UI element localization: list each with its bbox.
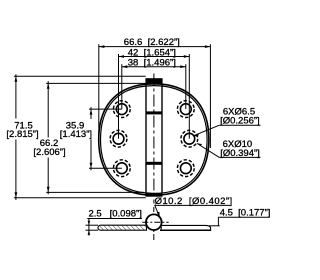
leader to hole inner bbox=[194, 125, 219, 135]
side view barrel circle bbox=[146, 214, 162, 230]
dim 2.5 underline bbox=[87, 218, 142, 220]
hole bottom-left bbox=[113, 160, 130, 177]
dim 66.6 line bbox=[99, 46, 210, 48]
hole top-left bbox=[113, 101, 130, 118]
dia 10.2 underline bbox=[154, 204, 230, 206]
barrel left line bbox=[145, 84, 147, 194]
svg-text:38 [1.496”]: 38 [1.496”] bbox=[128, 58, 176, 69]
dim 71.5 arrows bbox=[15, 76, 18, 198]
dim 66.2 arrows bbox=[47, 83, 50, 192]
dia 10.2 leader bbox=[155, 205, 160, 216]
dim 4.5 drop line bbox=[217, 217, 219, 226]
leaf inner edge circle bbox=[101, 86, 208, 194]
hole mid-left bbox=[110, 130, 127, 147]
barrel bottom cap bbox=[145, 193, 162, 196]
svg-text:[2.606”]: [2.606”] bbox=[33, 147, 65, 158]
svg-text:66.6 [2.622”]: 66.6 [2.622”] bbox=[124, 37, 180, 48]
barrel band lower bbox=[146, 162, 163, 165]
dim 35.9 extension lines bbox=[89, 109, 122, 168]
dim 4.5 extension bbox=[209, 225, 220, 227]
dim 4.5 underline bbox=[218, 216, 269, 218]
dim 66.6 extension lines bbox=[99, 44, 211, 148]
dim 66.2 line bbox=[47, 81, 49, 194]
dim 42 extension lines bbox=[119, 54, 190, 139]
dim 38 line bbox=[122, 66, 186, 68]
dim 66.6 arrows bbox=[99, 45, 210, 48]
side view left leaf bbox=[98, 225, 147, 230]
right leaf bottom edge heavy bbox=[160, 229, 210, 231]
label 6X dia 10 underline bbox=[219, 156, 260, 158]
dim 2.5 arrows bbox=[88, 221, 91, 235]
svg-text:4.5 [0.177”]: 4.5 [0.177”] bbox=[220, 207, 271, 218]
dim 2.5 extension lines bbox=[86, 225, 99, 230]
hole bottom-right bbox=[177, 160, 194, 177]
svg-text:2.5 [0.098”]: 2.5 [0.098”] bbox=[89, 209, 142, 220]
dim 35.9 line bbox=[90, 107, 92, 170]
dim 38 arrows bbox=[122, 65, 186, 68]
side view horizontal centerline bbox=[142, 221, 168, 223]
vertical centerline bbox=[153, 74, 155, 204]
hole top-right bbox=[177, 101, 194, 118]
svg-text:[2.815”]: [2.815”] bbox=[6, 129, 38, 140]
label 6X dia 6.5 underline bbox=[219, 124, 260, 126]
dim 2.5 dim line bbox=[88, 219, 90, 236]
dim 42 line bbox=[119, 56, 190, 58]
side view vertical centerline bbox=[153, 207, 155, 241]
dim 42 arrows bbox=[119, 55, 190, 58]
dim 71.5 line bbox=[15, 74, 17, 200]
leaf outer circle bbox=[99, 84, 209, 195]
barrel top cap bbox=[145, 78, 162, 84]
barrel right line bbox=[161, 84, 163, 194]
dim 66.2 extension lines bbox=[46, 83, 146, 192]
svg-text:[1.413”]: [1.413”] bbox=[60, 129, 92, 140]
leader to hole outer bbox=[197, 144, 219, 158]
dim 35.9 arrows bbox=[90, 109, 93, 168]
barrel band upper bbox=[146, 111, 163, 114]
dim 38 extension lines bbox=[122, 64, 186, 109]
dim 71.5 extension lines bbox=[14, 76, 146, 198]
side view right leaf bbox=[161, 225, 210, 230]
hole mid-right bbox=[181, 130, 198, 147]
